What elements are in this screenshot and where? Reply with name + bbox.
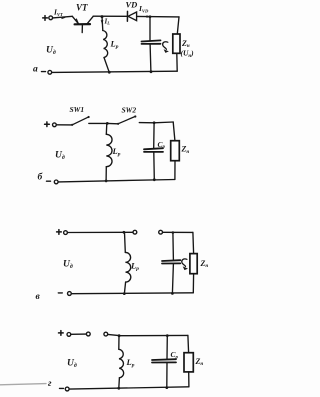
label v (figure letter)	[36, 292, 41, 302]
open switch contact circle right (fig g)	[104, 332, 108, 336]
wire Z box to bottom rail (fig g)	[188, 372, 190, 387]
label I_VT	[53, 8, 63, 17]
wire C node to top-right corner (fig b)	[154, 121, 173, 124]
inductor L_p (fig v)	[124, 232, 130, 293]
capacitor C branch wire bottom (fig a)	[149, 44, 152, 71]
minus terminal circle (fig a)	[48, 70, 52, 74]
bottom rail (fig v)	[71, 292, 193, 295]
wire right contact to node (fig g)	[108, 334, 119, 335]
label a (figure letter)	[33, 65, 38, 75]
wire node to switch SW2 pivot	[107, 122, 118, 124]
capacitor C_p branch wire bottom (fig g)	[166, 363, 168, 388]
node junction dot (C top, fig b)	[153, 121, 156, 124]
svg-text:VT: VT	[76, 3, 88, 13]
label VT	[76, 3, 88, 13]
node junction dot (C bottom, fig b)	[153, 178, 156, 181]
label SW2	[122, 105, 137, 114]
inductor L_p (fig g)	[119, 336, 124, 389]
capacitor C branch wire bottom (fig v)	[172, 264, 173, 294]
label U_d (fig a)	[46, 46, 56, 57]
capacitor C_p branch wire top (fig g)	[166, 336, 168, 359]
wire Z box to bottom rail (fig a)	[176, 53, 178, 71]
switch SW2 contact dots	[117, 115, 136, 125]
node junction dot (L top, fig g)	[118, 334, 121, 337]
svg-text:(Uн): (Uн)	[181, 49, 195, 59]
capacitor C_p branch wire top (fig b)	[153, 123, 155, 149]
label Z_n (fig b)	[181, 145, 190, 155]
bottom rail (fig g)	[69, 387, 189, 389]
svg-text:VD: VD	[126, 0, 138, 10]
wire SW2 fixed contact to C node (fig b)	[139, 122, 154, 124]
node junction dot (C bottom, fig g)	[165, 386, 168, 389]
minus terminal label (fig v)	[58, 292, 62, 294]
label Z_n (fig a)	[181, 39, 190, 49]
node junction dot (L bottom, fig b)	[105, 180, 108, 183]
stray scan streak bottom-left	[0, 384, 46, 385]
minus terminal circle (fig b)	[54, 180, 58, 184]
capacitor C_p plates (fig b)	[144, 148, 163, 152]
minus terminal label (fig b)	[47, 180, 51, 182]
wire top-right corner down to Z box (fig b)	[173, 122, 175, 141]
current arrow I_L on inductor wire	[101, 20, 104, 24]
bottom rail (fig a)	[52, 71, 177, 72]
node junction dot (L top, fig a)	[101, 15, 104, 18]
svg-text:SW2: SW2	[122, 105, 137, 114]
load Z_n box (fig v)	[190, 254, 197, 274]
label C squiggle (fig a)	[163, 42, 168, 50]
wire Z box to bottom rail (fig v)	[192, 274, 194, 293]
capacitor C_p plates (fig g)	[152, 359, 176, 362]
minus terminal circle (fig g)	[65, 387, 69, 391]
transistor VT	[72, 16, 93, 32]
capacitor C branch wire top (fig a)	[149, 17, 151, 41]
node junction dot (L bottom, fig v)	[123, 292, 126, 295]
wire top-right corner down to Z box (fig a)	[177, 17, 179, 34]
capacitor C plates (fig v)	[162, 260, 180, 263]
node junction dot (L bottom, fig a)	[108, 71, 111, 74]
plus terminal circle (fig g)	[67, 333, 71, 337]
wire right contact to top-right corner (fig v)	[163, 231, 193, 233]
plus terminal label (fig v)	[57, 230, 62, 235]
plus terminal circle (fig v)	[64, 231, 68, 235]
minus terminal label (fig a)	[42, 71, 46, 73]
load Z_n box (fig a)	[173, 34, 180, 53]
bottom rail (fig b)	[58, 180, 174, 182]
wire from plus terminal to node (fig v)	[68, 231, 133, 233]
label I_L	[104, 17, 111, 25]
wire from plus terminal to switch SW1	[56, 124, 72, 126]
wire SW1 fixed contact to node (fig b)	[89, 122, 108, 124]
diode VD	[127, 11, 136, 21]
wire from plus terminal to transistor VT emitter	[53, 16, 73, 18]
plus terminal circle (fig a)	[49, 16, 53, 20]
load Z_n box (fig g)	[184, 353, 193, 372]
wire Z box to bottom rail (fig b)	[174, 161, 176, 180]
capacitor C plates (fig a)	[142, 40, 161, 44]
node junction dot (C top, fig a)	[149, 15, 152, 18]
node junction dot (L top, fig v)	[123, 231, 126, 234]
wire top-right corner down to Z box (fig g)	[187, 335, 190, 352]
transistor VT emitter arrowhead	[75, 18, 79, 24]
label L_p (fig a)	[110, 39, 119, 51]
svg-text:SW1: SW1	[70, 105, 85, 114]
minus terminal circle (fig v)	[68, 292, 72, 296]
label U_d (fig b)	[55, 151, 65, 162]
capacitor C_p branch wire bottom (fig b)	[153, 152, 156, 180]
label L_p (fig v)	[130, 261, 139, 273]
current arrow I_VT on wire	[62, 17, 66, 20]
plus terminal circle (fig b)	[53, 123, 57, 127]
open switch contact circle right (fig v)	[159, 230, 163, 234]
minus terminal label (fig g)	[60, 387, 64, 389]
load Z_n box (fig b)	[171, 141, 180, 161]
plus terminal label (fig b)	[45, 122, 50, 127]
svg-text:г: г	[48, 379, 52, 389]
label L_p (fig b)	[112, 146, 121, 158]
label U_d (fig g)	[67, 359, 77, 370]
switch SW2 blade	[118, 116, 135, 123]
switch SW1 contact dots	[71, 116, 90, 126]
wire top-right corner down to Z box (fig v)	[192, 232, 195, 253]
label L_p (fig g)	[126, 357, 135, 369]
node junction dot (L bottom, fig g)	[117, 387, 120, 390]
label I_VD	[138, 4, 149, 13]
open switch contact circle left (fig v)	[133, 230, 137, 234]
node junction dot (L top, fig b)	[106, 122, 109, 125]
top rail node to C node to corner (fig g)	[119, 334, 188, 336]
inductor L_p (fig a)	[102, 17, 109, 73]
label (U_n) (fig a)	[181, 49, 195, 59]
node junction dot (C top, fig v)	[172, 231, 175, 234]
wire from transistor VT to diode VD	[93, 15, 127, 17]
open switch contact circle left (fig g)	[86, 332, 90, 336]
label C squiggle (fig v)	[182, 259, 187, 267]
label g (figure letter)	[48, 379, 52, 389]
wire plus terminal to open switch left contact (fig g)	[71, 333, 86, 335]
wire from diode VD to top-right corner	[137, 15, 179, 18]
label C_p (fig g)	[171, 350, 179, 360]
label VD	[126, 0, 138, 10]
plus terminal label (fig a)	[43, 16, 48, 21]
label C_p (fig b)	[158, 140, 166, 150]
node junction dot (C top, fig g)	[166, 334, 169, 337]
label U_d (fig v)	[63, 260, 73, 271]
svg-text:а: а	[33, 65, 38, 75]
plus terminal label (fig g)	[59, 331, 64, 336]
node junction dot (C bottom, fig a)	[150, 70, 153, 73]
label SW1	[70, 105, 85, 114]
label Z_n (fig v)	[200, 259, 209, 269]
label Z_n (fig g)	[195, 357, 204, 367]
current arrow I_VD on wire	[147, 15, 151, 18]
switch SW1 blade	[72, 117, 89, 125]
node junction dot (C bottom, fig v)	[171, 292, 174, 295]
label b (figure letter)	[38, 172, 44, 183]
capacitor C branch wire top (fig v)	[172, 233, 175, 261]
inductor L_p (fig b)	[106, 124, 112, 181]
